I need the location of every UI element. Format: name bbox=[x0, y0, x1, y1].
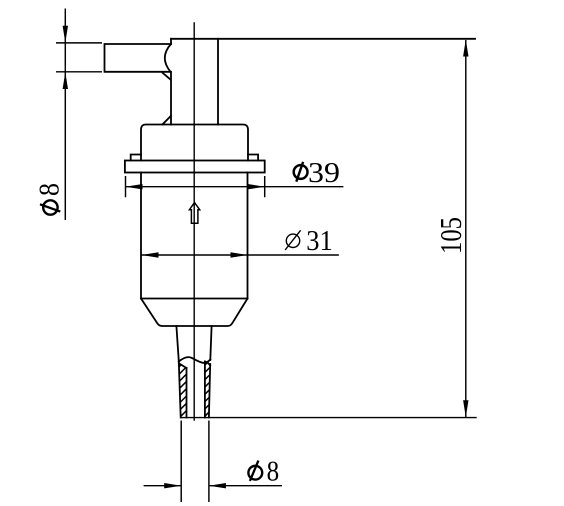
dim Ø39: extension lines bbox=[126, 176, 265, 197]
dim Ø8 left: extension lines bbox=[56, 43, 102, 72]
right tab bbox=[248, 155, 258, 161]
dim Ø31: dimension line bbox=[142, 254, 339, 256]
side tube bbox=[105, 44, 172, 72]
neck-bonnet weld chamfer bbox=[163, 116, 171, 124]
label Ø39 bbox=[294, 157, 340, 189]
dim Ø8 bottom: extension lines bbox=[181, 421, 209, 503]
flange bbox=[125, 161, 265, 173]
taper bbox=[141, 299, 248, 327]
flow direction arrow bbox=[189, 203, 199, 224]
label Ø8 bottom bbox=[248, 456, 279, 488]
arrow 105 top (up) bbox=[463, 40, 468, 57]
right wall top edge bbox=[205, 362, 210, 366]
neck bbox=[171, 39, 218, 125]
label Ø31 bbox=[285, 225, 333, 257]
elbow fillet arc bbox=[165, 44, 171, 72]
svg-text:31: 31 bbox=[306, 225, 333, 257]
centerline bbox=[193, 23, 195, 420]
dim Ø39: dimension line bbox=[126, 186, 344, 188]
label 105 (rotated) bbox=[433, 217, 468, 254]
stem upper section bbox=[176, 326, 211, 361]
arrow Ø8 bottom right (left-pointing) bbox=[209, 483, 226, 488]
svg-text:39: 39 bbox=[308, 157, 340, 189]
svg-text:105: 105 bbox=[433, 217, 468, 254]
elbow lower chamfer bbox=[163, 73, 171, 80]
dim Ø8 bottom: dimension line bbox=[144, 485, 282, 487]
left tab bbox=[131, 155, 141, 161]
arrow 105 bottom (down) bbox=[463, 400, 468, 417]
arrow Ø39 right bbox=[248, 184, 265, 189]
arrow Ø31 right bbox=[231, 252, 248, 257]
arrow Ø8 bottom left (right-pointing) bbox=[164, 483, 181, 488]
bonnet bbox=[141, 125, 248, 161]
arrow Ø31 left bbox=[142, 252, 159, 257]
dim Ø8 left: dimension line bbox=[64, 9, 66, 221]
dim 105: dimension line bbox=[465, 40, 467, 417]
bore inner lines bbox=[187, 362, 205, 418]
svg-text:8: 8 bbox=[34, 183, 66, 196]
left wall top edge bbox=[179, 364, 186, 369]
body bbox=[141, 173, 248, 299]
svg-text:8: 8 bbox=[267, 456, 280, 488]
stem bottom line and 105 bottom extension line bbox=[181, 417, 476, 419]
top extension line from neck top bbox=[171, 38, 475, 40]
arrow Ø8 left top (down) bbox=[63, 26, 68, 43]
label Ø8 left (rotated) bbox=[34, 183, 66, 215]
break line bbox=[179, 357, 211, 363]
stem lower outer edges bbox=[179, 362, 210, 418]
arrow Ø39 left bbox=[126, 184, 143, 189]
arrow Ø8 left bottom (up) bbox=[63, 72, 68, 89]
